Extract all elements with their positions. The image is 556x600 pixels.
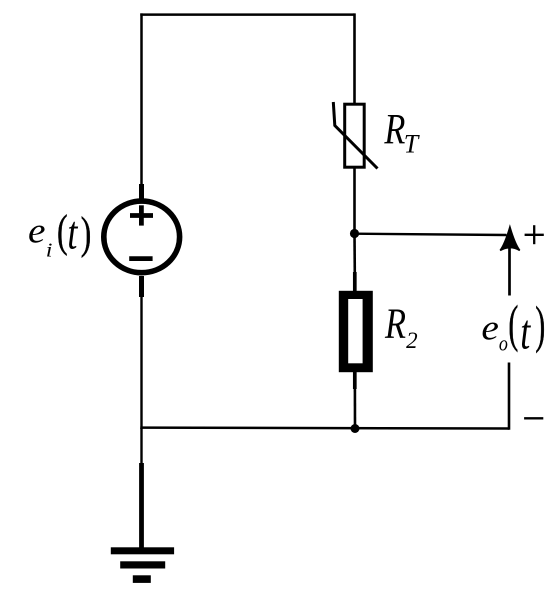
resistor R2 body [339,291,373,372]
node A junction dot [350,229,359,238]
label ei(t) [28,207,91,261]
svg-text:): ) [81,209,92,259]
minus marking inside source [129,256,152,261]
svg-text:R: R [384,107,406,154]
wire R2 to node B [354,388,357,429]
svg-text:t: t [67,207,78,260]
wire bottom rail [140,426,509,429]
wire right vertical lower [508,363,511,430]
plus label at output [525,225,544,244]
wire RT to node A [353,166,356,232]
svg-text:R: R [384,301,406,348]
ground lead thick [139,463,144,549]
label eo(t) [481,296,545,360]
label RT [384,107,420,159]
wire left vertical lower [140,296,142,429]
node B junction dot [351,424,360,433]
thermistor RT body [345,104,365,167]
thermistor RT diagonal [333,102,377,169]
svg-text:t: t [520,305,531,360]
svg-text:T: T [404,130,420,159]
plus marking inside source [130,205,153,225]
svg-text:2: 2 [406,328,418,353]
wire mid rail to arrow [355,234,507,235]
ground bar 1 [111,547,174,554]
svg-text:e: e [28,211,46,251]
lead stub R2 top [353,272,357,292]
wire left vertical upper [140,13,143,200]
voltage source ei circle [104,201,180,273]
ground bar 2 [120,561,165,568]
lead stub source top [139,184,144,200]
svg-text:o: o [499,332,508,356]
lead stub source bottom [139,276,144,297]
ground bar 3 [133,575,151,583]
arrow shaft [508,248,511,296]
wire ground lead thin [140,428,142,466]
arrowhead of eo [500,227,520,250]
minus label at output [524,417,543,419]
wire top rail [140,13,354,16]
lead stub R2 bottom [353,372,357,390]
wire node A to R2 [353,234,356,274]
label R2 [384,301,417,353]
svg-text:i: i [46,238,53,261]
svg-text:e: e [481,307,499,347]
wire right vertical upper [353,13,356,104]
svg-text:(: ( [508,296,518,353]
svg-text:): ) [535,297,545,354]
svg-text:(: ( [57,207,68,257]
